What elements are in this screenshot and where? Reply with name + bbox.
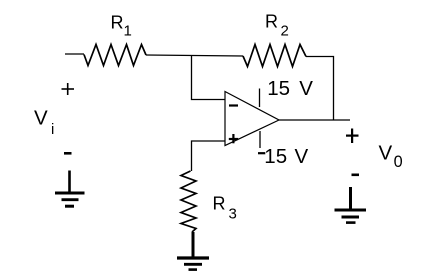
svg-text:2: 2	[281, 23, 289, 40]
svg-text:i: i	[51, 121, 54, 138]
svg-text:R: R	[111, 13, 124, 33]
svg-text:15: 15	[267, 77, 290, 100]
svg-text:R: R	[265, 12, 278, 32]
svg-text:15: 15	[264, 145, 287, 168]
svg-text:0: 0	[394, 153, 403, 171]
svg-text:1: 1	[124, 23, 132, 40]
svg-text:3: 3	[229, 205, 237, 222]
svg-text:V: V	[379, 141, 393, 164]
svg-text:V: V	[299, 77, 313, 100]
svg-text:V: V	[34, 106, 48, 129]
svg-text:R: R	[213, 194, 226, 214]
svg-text:V: V	[295, 145, 309, 168]
